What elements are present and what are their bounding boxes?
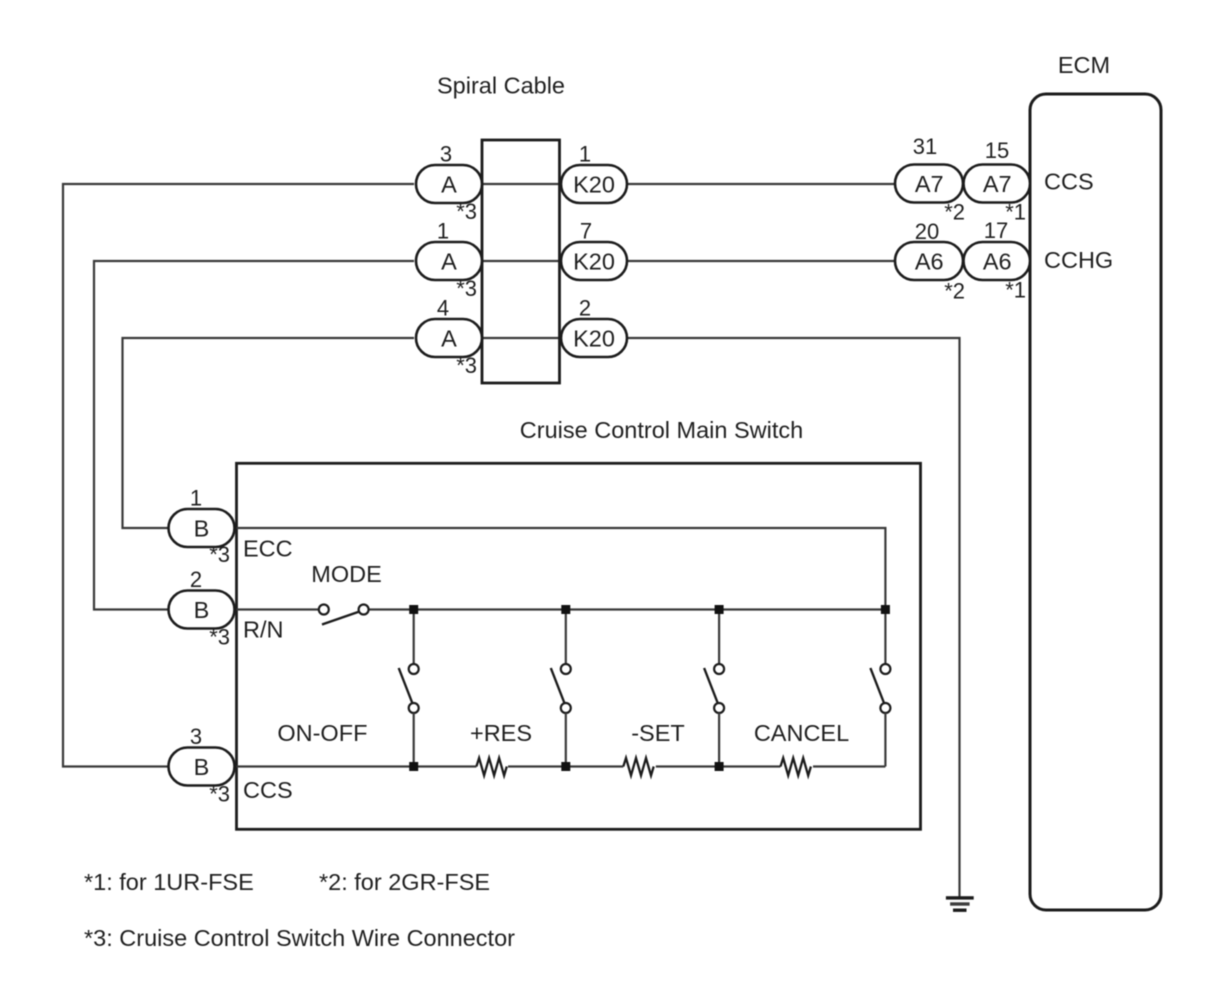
svg-text:*1: for 1UR-FSE: *1: for 1UR-FSE <box>84 869 254 895</box>
svg-text:CCS: CCS <box>243 777 293 803</box>
svg-text:Cruise Control Main Switch: Cruise Control Main Switch <box>520 417 803 443</box>
junction R/N x -SET <box>715 605 724 614</box>
svg-text:1: 1 <box>579 142 591 167</box>
svg-text:B: B <box>194 754 210 780</box>
connector A pin 4 (row3) <box>416 319 482 357</box>
connector B pin 1 (ECC) <box>169 509 235 547</box>
connector K20 pin 1 (row1) <box>561 165 627 203</box>
switch CANCEL <box>870 610 890 767</box>
svg-text:A7: A7 <box>915 171 944 197</box>
svg-text:K20: K20 <box>573 248 615 274</box>
svg-text:*3: *3 <box>456 353 477 378</box>
connector A6 pin 20 (2GR) <box>895 242 963 280</box>
junction CCS x ON-OFF <box>409 762 418 771</box>
wire net CCHG: A1 to B2 (left loop) <box>94 261 414 610</box>
switch +RES <box>551 610 571 767</box>
svg-text:*2: for 2GR-FSE: *2: for 2GR-FSE <box>319 869 490 895</box>
resistor (-SET) <box>623 758 653 776</box>
ground <box>946 896 974 912</box>
junction R/N x ON-OFF <box>409 605 418 614</box>
svg-text:MODE: MODE <box>311 561 382 587</box>
wire row2 through spiral cable to A6 <box>460 260 900 262</box>
connector A pin 3 (row1) <box>416 165 482 203</box>
svg-text:ON-OFF: ON-OFF <box>277 720 367 746</box>
svg-text:*3: *3 <box>456 276 477 301</box>
switch -SET <box>704 610 724 767</box>
svg-text:*2: *2 <box>944 279 965 304</box>
wire net ECC: A4 to B1 (left loop) <box>123 338 415 528</box>
svg-text:17: 17 <box>984 218 1008 243</box>
svg-text:Spiral Cable: Spiral Cable <box>437 73 565 99</box>
svg-text:A6: A6 <box>915 249 944 275</box>
svg-text:*3: *3 <box>209 625 230 650</box>
svg-text:-SET: -SET <box>631 720 685 746</box>
svg-text:A: A <box>441 171 457 197</box>
svg-text:4: 4 <box>437 296 449 321</box>
wire row1 through spiral cable to A7 <box>460 183 900 185</box>
svg-text:CCS: CCS <box>1044 169 1094 195</box>
svg-text:K20: K20 <box>573 171 615 197</box>
svg-text:*3: *3 <box>209 542 230 567</box>
connector A pin 1 (row2) <box>416 242 482 280</box>
svg-text:B: B <box>194 597 210 623</box>
connector A7 pin 31 (2GR) <box>895 165 963 203</box>
svg-text:2: 2 <box>190 567 202 592</box>
svg-text:7: 7 <box>580 219 592 244</box>
svg-text:A7: A7 <box>983 171 1012 197</box>
svg-text:CANCEL: CANCEL <box>754 720 849 746</box>
connector B pin 3 (CCS) <box>169 748 235 786</box>
svg-text:A: A <box>441 248 457 274</box>
svg-text:A6: A6 <box>983 249 1012 275</box>
switch MODE <box>319 605 369 625</box>
svg-text:*3: *3 <box>456 199 477 224</box>
svg-text:*3: *3 <box>209 782 230 807</box>
cruise control main switch box <box>237 463 921 829</box>
svg-text:*2: *2 <box>944 200 965 225</box>
svg-text:*3: Cruise Control Switch Wire: *3: Cruise Control Switch Wire Connector <box>84 925 515 951</box>
resistor (CANCEL) <box>781 758 811 776</box>
svg-text:A: A <box>441 325 457 351</box>
junction R/N x CANCEL/ECC <box>881 605 890 614</box>
svg-text:*1: *1 <box>1005 278 1026 303</box>
junction R/N x +RES <box>561 605 570 614</box>
svg-text:ECM: ECM <box>1058 52 1110 78</box>
svg-text:2: 2 <box>579 296 591 321</box>
svg-text:R/N: R/N <box>243 617 283 643</box>
svg-text:ECC: ECC <box>243 536 293 562</box>
wire ECC row inside switch <box>237 528 886 610</box>
wire CCS row inside switch <box>237 765 886 767</box>
junction CCS x -SET <box>715 762 724 771</box>
svg-text:K20: K20 <box>573 325 615 351</box>
svg-text:31: 31 <box>913 134 937 159</box>
svg-text:1: 1 <box>437 219 449 244</box>
wire net CCS: A3 to B3 (left loop) <box>63 184 414 767</box>
spiral cable box <box>482 140 560 383</box>
ECM box <box>1030 94 1161 910</box>
svg-text:1: 1 <box>190 486 202 511</box>
wire row3 through spiral cable to ground <box>460 338 960 897</box>
svg-text:*1: *1 <box>1005 200 1026 225</box>
switch ON-OFF <box>399 610 419 767</box>
connector A6 pin 17 (1UR) <box>964 242 1031 280</box>
connector B pin 2 (R/N) <box>169 591 235 629</box>
wire R/N row inside switch <box>237 608 886 610</box>
svg-text:3: 3 <box>190 724 202 749</box>
svg-text:B: B <box>194 515 210 541</box>
svg-text:CCHG: CCHG <box>1044 247 1113 273</box>
svg-text:+RES: +RES <box>470 720 532 746</box>
connector K20 pin 2 (row3) <box>561 319 627 357</box>
connector A7 pin 15 (1UR) <box>964 165 1031 203</box>
junction CCS x +RES <box>561 762 570 771</box>
connector K20 pin 7 (row2) <box>561 242 627 280</box>
svg-text:15: 15 <box>985 138 1009 163</box>
svg-text:3: 3 <box>440 142 452 167</box>
svg-text:20: 20 <box>915 219 939 244</box>
resistor (+RES) <box>476 758 506 776</box>
